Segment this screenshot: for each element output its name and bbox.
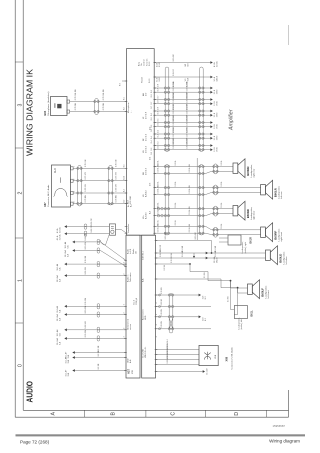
svg-text:0.35 GR-SB: 0.35 GR-SB: [171, 252, 173, 262]
svg-text:0.35 OR-SB: 0.35 OR-SB: [187, 138, 189, 148]
svg-text:CON_A: CON_A: [135, 297, 138, 305]
wire into A27 y=241.9: [73, 242, 127, 261]
svg-text:0.5 BL-SB: 0.5 BL-SB: [158, 206, 160, 215]
svg-text:Amplifier: Amplifier: [229, 109, 235, 131]
shield, microphone pair: [95, 99, 99, 115]
wire pair amp out 6: [154, 145, 212, 147]
shield racetracks, right field: [165, 67, 169, 152]
svg-text:B-2: B-2: [205, 318, 207, 321]
svg-text:8:3: 8:3: [120, 82, 122, 86]
svg-text:0.5 BL: 0.5 BL: [175, 181, 177, 186]
wire pair amp out 1: [154, 87, 212, 89]
svg-text:2: 2: [124, 259, 126, 260]
svg-text:D-7: D-7: [151, 102, 153, 105]
shield, AUX pairs 1: [78, 166, 82, 207]
svg-text:D-8: D-8: [151, 94, 153, 97]
svg-text:B-5: B-5: [124, 165, 126, 168]
wire into A27 y=338.4: [65, 337, 127, 339]
svg-text:1: 1: [74, 166, 76, 167]
svg-text:AUX: AUX: [54, 168, 57, 173]
svg-text:D-3: D-3: [158, 142, 160, 145]
svg-text:Handsfree: Handsfree: [128, 223, 130, 233]
svg-text:0.5 BL-SB: 0.5 BL-SB: [189, 185, 191, 194]
svg-text:8:1: 8:1: [124, 97, 126, 100]
svg-text:AM: AM: [142, 93, 145, 96]
twist X inside shield: [169, 318, 173, 329]
wire to B61L +: [231, 281, 235, 310]
svg-text:0.5 R: 0.5 R: [159, 62, 161, 67]
svg-text:31/4: 31/4: [68, 373, 70, 377]
AUX headphone symbol: [60, 177, 62, 182]
wire into A27 y=306.3: [65, 305, 127, 307]
svg-text:0.5 BL-SB: 0.5 BL-SB: [189, 223, 191, 232]
twist knots at amp edge, lower rows: [157, 207, 160, 210]
svg-text:2: 2: [17, 191, 23, 194]
svg-text:2: 2: [124, 262, 126, 263]
loudspeaker B60LF: [248, 280, 270, 299]
svg-text:A27: A27: [127, 368, 131, 374]
svg-text:B60LF: B60LF: [261, 288, 265, 297]
svg-text:0.35 GR: 0.35 GR: [85, 184, 87, 192]
shield, AUX pairs 2: [109, 166, 113, 206]
svg-text:B-2: B-2: [205, 296, 207, 299]
svg-text:B60LR: B60LR: [274, 188, 278, 197]
svg-text:Telematics: Telematics: [129, 273, 132, 282]
svg-text:D-4: D-4: [150, 156, 152, 160]
svg-text:0.35 GN: 0.35 GN: [85, 330, 87, 338]
svg-text:0.5 BL: 0.5 BL: [175, 220, 177, 225]
registration mark, top right: [288, 25, 290, 45]
svg-text:31/4: 31/4: [68, 360, 70, 364]
svg-text:31:1-A7: 31:1-A7: [206, 368, 209, 374]
svg-text:31/3-A: 31/3-A: [215, 61, 218, 67]
svg-text:D-8: D-8: [158, 84, 160, 87]
svg-text:D-5: D-5: [158, 123, 160, 126]
svg-text:D-6: D-6: [151, 113, 153, 116]
svg-text:54/2-B: 54/2-B: [216, 75, 218, 81]
svg-text:B-9: B-9: [124, 200, 126, 203]
svg-text:3: 3: [17, 103, 23, 106]
svg-text:D-4: D-4: [158, 134, 160, 137]
vertical bus right of racetracks: [196, 158, 198, 240]
svg-text:VBUS D+ D-: VBUS D+ D-: [145, 346, 147, 358]
svg-text:0.5 BL-SB: 0.5 BL-SB: [189, 206, 191, 215]
svg-text:0.35 OR: 0.35 OR: [160, 249, 162, 257]
svg-text:left front: left front: [267, 290, 270, 298]
svg-text:B-10: B-10: [124, 176, 126, 180]
module A27 ICM box 1: [126, 235, 140, 378]
svg-text:0.35 GR-SB: 0.35 GR-SB: [187, 115, 189, 125]
svg-text:0.35 VO: 0.35 VO: [85, 172, 87, 180]
svg-text:(treble), right: (treble), right: [244, 242, 247, 254]
svg-text:Shield: Shield: [142, 77, 144, 83]
svg-text:0.5 BL: 0.5 BL: [175, 202, 177, 207]
rows from A27 top right: [156, 240, 212, 242]
svg-text:0.35 GN: 0.35 GN: [85, 242, 87, 250]
lower rows from A27 right edge: [156, 294, 201, 296]
svg-text:A-6: A-6: [149, 210, 152, 214]
wire to B60LF -: [156, 279, 248, 293]
svg-text:0.35 GR: 0.35 GR: [173, 54, 175, 62]
wire pair to B60RR: [154, 166, 233, 168]
svg-text:HDD: HDD: [145, 315, 147, 320]
svg-text:0.35 BN: 0.35 BN: [161, 309, 163, 316]
svg-text:16/30: 16/30: [216, 136, 218, 141]
svg-text:D-5: D-5: [151, 129, 153, 132]
svg-text:In L R: In L R: [130, 248, 132, 254]
svg-text:0.35 GR: 0.35 GR: [195, 232, 197, 240]
wire to B61L -: [234, 288, 237, 315]
svg-text:Audio in: Audio in: [127, 275, 130, 282]
svg-text:Amp: Amp: [138, 61, 141, 66]
svg-text:0.5 BL-SB: 0.5 BL-SB: [158, 164, 160, 173]
svg-text:0.35 GN-SB: 0.35 GN-SB: [173, 104, 175, 114]
svg-text:B60RF: B60RF: [274, 230, 278, 239]
svg-text:31/3-A: 31/3-A: [58, 227, 61, 233]
svg-text:A-5 A-6: A-5 A-6: [145, 211, 148, 219]
svg-text:15956587: 15956587: [273, 424, 286, 428]
svg-text:WIRING DIAGRAM IK: WIRING DIAGRAM IK: [26, 68, 35, 156]
svg-text:B60RD: B60RD: [246, 209, 250, 218]
svg-text:Control: Control: [143, 59, 146, 66]
svg-text:D-3: D-3: [151, 152, 153, 155]
svg-text:AUDIO: AUDIO: [25, 381, 34, 403]
svg-text:D-3 D-4: D-3 D-4: [146, 145, 148, 153]
wire pair to B60RD: [154, 208, 233, 210]
amplifier pin label top left: [122, 80, 127, 82]
svg-text:0.5 BL-SB: 0.5 BL-SB: [158, 223, 160, 232]
svg-text:B63: B63: [43, 110, 47, 115]
svg-text:0.35 GN: 0.35 GN: [85, 306, 87, 314]
svg-text:0.5 BL-SB: 0.5 BL-SB: [189, 164, 191, 173]
svg-text:(treble), left: (treble), left: [240, 319, 243, 330]
svg-text:D-16: D-16: [149, 61, 151, 66]
bottom rows into A27: [73, 352, 127, 354]
svg-text:0.35 BL-SB: 0.35 BL-SB: [187, 81, 189, 91]
wire pair to B60RF: [154, 226, 260, 230]
svg-text:4: 4: [156, 314, 158, 315]
wire pair amp out 3: [154, 110, 212, 112]
svg-text:0.35 GN: 0.35 GN: [116, 159, 118, 167]
wire into A27 y=264.1: [65, 263, 127, 265]
svg-text:Accessories: Accessories: [142, 309, 145, 320]
svg-text:ICM_W_1: ICM_W_1: [143, 250, 145, 260]
svg-text:2: 2: [124, 274, 126, 275]
svg-text:B61R: B61R: [250, 237, 253, 244]
svg-text:Connector, AUX, Audio: Connector, AUX, Audio: [47, 184, 50, 207]
svg-text:16/30: 16/30: [216, 113, 218, 118]
svg-text:0.35 VO-SB: 0.35 VO-SB: [187, 127, 189, 137]
svg-text:B60LD: B60LD: [279, 254, 283, 263]
svg-text:L R GND: L R GND: [130, 195, 132, 204]
svg-text:0.35 GR-SB: 0.35 GR-SB: [173, 115, 175, 125]
svg-text:0.35 BL-SB: 0.35 BL-SB: [173, 81, 175, 91]
svg-text:ICM: ICM: [132, 370, 134, 374]
svg-text:Microphone: Microphone: [128, 102, 130, 113]
svg-text:right door: right door: [252, 210, 255, 220]
svg-text:D-6: D-6: [151, 117, 153, 120]
branch wires down to B61L: [230, 280, 232, 282]
svg-text:0.5 SB: 0.5 SB: [98, 350, 100, 356]
svg-text:C: C: [170, 412, 176, 416]
svg-text:D: D: [234, 412, 240, 416]
svg-text:D-5: D-5: [151, 125, 153, 128]
control button box (handsfree): [109, 224, 115, 235]
svg-text:0.35 BN: 0.35 BN: [116, 195, 118, 203]
svg-text:+ -: + -: [131, 110, 133, 113]
svg-text:D-6: D-6: [158, 111, 160, 114]
svg-text:0.5 GN: 0.5 GN: [215, 250, 217, 257]
tweeter B61R: [228, 235, 241, 245]
connector X88 USB: [199, 345, 218, 365]
svg-text:2: 2: [124, 336, 126, 337]
svg-text:0.35 BN: 0.35 BN: [161, 298, 163, 305]
svg-text:0.35 VO-SB: 0.35 VO-SB: [173, 127, 175, 137]
svg-text:0.35 GN-SB: 0.35 GN-SB: [187, 104, 189, 114]
svg-text:3: 3: [74, 191, 76, 192]
svg-text:D-4: D-4: [158, 130, 160, 133]
svg-text:D-1 D-2: D-1 D-2: [146, 133, 148, 141]
wires A27 to X88: [156, 349, 200, 351]
svg-text:0.35 OR: 0.35 OR: [91, 218, 93, 226]
svg-text:0.5 GN: 0.5 GN: [182, 250, 184, 257]
svg-text:D-5 D-6: D-5 D-6: [146, 167, 148, 175]
svg-text:0.35 GR: 0.35 GR: [165, 232, 167, 240]
svg-text:0.5 SB: 0.5 SB: [228, 296, 230, 302]
svg-text:0.35 VO: 0.35 VO: [173, 68, 175, 75]
svg-text:384:33: 384:33: [216, 258, 218, 264]
svg-text:31/3-A: 31/3-A: [58, 234, 61, 240]
svg-text:AUX: AUX: [127, 199, 130, 204]
svg-text:0.35 SB: 0.35 SB: [103, 103, 105, 111]
svg-text:0: 0: [17, 364, 23, 367]
svg-text:A-B: A-B: [129, 359, 132, 363]
svg-text:B: B: [110, 411, 116, 415]
svg-text:D-6: D-6: [158, 107, 160, 110]
svg-text:16/30: 16/30: [216, 101, 218, 106]
svg-text:X88: X88: [225, 356, 229, 361]
svg-text:Wiring diagram: Wiring diagram: [269, 439, 300, 444]
svg-text:0.35 GN-SB: 0.35 GN-SB: [103, 89, 105, 100]
svg-text:D-7: D-7: [158, 100, 160, 103]
svg-text:Connector, USB, Audio: Connector, USB, Audio: [231, 346, 234, 369]
shield, lower pairs: [169, 294, 173, 333]
loudspeaker B60RD: [233, 201, 255, 220]
rows above A27: [65, 226, 110, 228]
svg-text:0.35 GN: 0.35 GN: [85, 159, 87, 167]
svg-text:0.35 OR: 0.35 OR: [91, 225, 93, 233]
svg-text:4: 4: [156, 336, 158, 337]
wire pair to B60LR: [154, 187, 260, 189]
amplifier pin stubs, left edge: [125, 80, 128, 82]
svg-text:Infotainment: Infotainment: [127, 319, 130, 330]
svg-text:4: 4: [156, 303, 158, 304]
svg-text:X87: X87: [43, 202, 47, 207]
svg-text:0.5 R: 0.5 R: [159, 76, 161, 81]
svg-text:0.35 GN-SB: 0.35 GN-SB: [75, 89, 77, 100]
svg-text:16/30: 16/30: [216, 90, 218, 95]
module A27 ICM box 2: [142, 235, 156, 378]
svg-text:1: 1: [17, 279, 23, 282]
svg-text:2: 2: [124, 313, 126, 314]
loudspeaker B60LD: [266, 246, 288, 265]
svg-text:0.35 GR: 0.35 GR: [116, 184, 118, 192]
svg-text:0.35 BN: 0.35 BN: [161, 287, 163, 294]
svg-text:right rear: right rear: [252, 168, 255, 177]
svg-text:0.35 GN: 0.35 GN: [85, 267, 87, 275]
svg-text:D-7 D-8: D-7 D-8: [146, 111, 148, 119]
wire into A27 y=250.5: [73, 251, 127, 267]
svg-text:0.35 GN: 0.35 GN: [85, 321, 87, 329]
svg-text:0.35 BN: 0.35 BN: [85, 195, 87, 203]
svg-text:Page 72 (268): Page 72 (268): [20, 439, 50, 444]
tweeter B61L: [234, 306, 247, 319]
svg-text:0.5 SB: 0.5 SB: [164, 264, 166, 270]
svg-text:0.35 GN: 0.35 GN: [85, 255, 87, 263]
wire pair amp out 2: [154, 99, 212, 101]
wire pair B63 to amplifier: [70, 101, 127, 103]
svg-text:31S: 31S: [187, 77, 189, 81]
wire pair amp out 5: [154, 133, 212, 135]
stepped wires A27 to B60LF: [189, 264, 191, 272]
wires A27 to B60LD: [156, 252, 266, 254]
svg-text:left rear: left rear: [280, 191, 283, 199]
svg-text:D-3: D-3: [158, 146, 160, 149]
wire pair amp out 4: [154, 122, 212, 124]
svg-text:D-7: D-7: [151, 106, 153, 109]
wire amp out y=77.0: [154, 76, 212, 78]
loudspeaker B60LR: [261, 180, 283, 199]
svg-text:source: source: [130, 323, 132, 330]
svg-text:0.35 VO: 0.35 VO: [116, 172, 118, 180]
svg-text:D-5: D-5: [158, 119, 160, 122]
svg-text:16/30: 16/30: [216, 147, 218, 152]
bottom right arrow from A27: [156, 371, 205, 373]
grid margin strip, bottom (letters A-D): [15, 416, 288, 418]
svg-text:0.5 SB: 0.5 SB: [204, 272, 206, 278]
svg-text:B61L: B61L: [251, 310, 254, 317]
svg-text:Microphone, (handsfree): Microphone, (handsfree): [47, 91, 50, 115]
svg-text:31/4: 31/4: [68, 355, 70, 359]
connector X87 AUX: [52, 165, 71, 207]
svg-text:2: 2: [74, 179, 76, 180]
svg-text:USB: USB: [215, 354, 217, 359]
footer rule: [16, 434, 306, 436]
wire into A27 y=275.6: [65, 275, 127, 277]
svg-text:0.5 BL: 0.5 BL: [221, 160, 223, 165]
microphone B63: [51, 97, 68, 116]
amplifier box: [127, 49, 155, 236]
svg-text:D-4: D-4: [151, 136, 153, 139]
svg-text:left door: left door: [285, 256, 288, 264]
svg-text:0.35 OR-SB: 0.35 OR-SB: [173, 138, 175, 148]
svg-text:D-6: D-6: [150, 182, 152, 186]
svg-text:D-9: D-9: [146, 92, 148, 96]
svg-text:A-8 A-4: A-8 A-4: [145, 189, 148, 197]
loudspeaker B60RR: [233, 159, 255, 178]
svg-text:2: 2: [124, 328, 126, 329]
svg-text:0.5 SB: 0.5 SB: [98, 363, 100, 369]
svg-text:right front: right front: [280, 232, 283, 242]
svg-text:4: 4: [74, 202, 76, 203]
svg-text:D-8: D-8: [151, 90, 153, 93]
wire to B60LF +: [190, 272, 248, 288]
svg-text:0.35 BN-SB: 0.35 BN-SB: [173, 92, 175, 102]
svg-text:2: 2: [124, 304, 126, 305]
wires from button box: [116, 229, 122, 231]
svg-text:16/30: 16/30: [216, 124, 218, 129]
svg-text:0.35 A-34:1: 0.35 A-34:1: [166, 354, 169, 363]
svg-text:0.5 BL: 0.5 BL: [175, 160, 177, 165]
svg-text:0.35 BN-SB: 0.35 BN-SB: [187, 92, 189, 102]
svg-text:0.5 BL-SB: 0.5 BL-SB: [158, 185, 160, 194]
svg-text:Audio: Audio: [127, 248, 130, 254]
svg-text:0.5 BL: 0.5 BL: [221, 181, 223, 186]
svg-text:D-10: D-10: [149, 78, 151, 83]
svg-text:2: 2: [124, 265, 126, 266]
svg-text:4: 4: [156, 324, 158, 325]
svg-text:0.35 GN: 0.35 GN: [85, 298, 87, 306]
svg-text:D-7: D-7: [158, 96, 160, 99]
grid margin strip, left (numbers 0-3): [14, 0, 16, 417]
svg-text:D-8: D-8: [158, 88, 160, 91]
svg-text:CD: CD: [136, 251, 138, 254]
svg-text:B60RR: B60RR: [246, 166, 250, 175]
wire into A27 y=314.5: [65, 314, 127, 316]
svg-text:0.35 BN: 0.35 BN: [161, 321, 163, 328]
wire into A27 y=329.8: [65, 329, 127, 331]
svg-text:31S: 31S: [187, 63, 189, 67]
svg-text:B-4: B-4: [124, 189, 126, 192]
shield racetracks, speaker pairs: [165, 165, 169, 236]
svg-text:8:2: 8:2: [124, 107, 126, 110]
svg-text:D-3: D-3: [151, 148, 153, 151]
wire amp out y=62.5: [154, 62, 212, 64]
wires X87 to amplifier: [73, 167, 126, 169]
svg-text:0.5 BL: 0.5 BL: [221, 224, 223, 229]
svg-text:0.35 SB: 0.35 SB: [75, 103, 77, 111]
svg-text:0.5 SB: 0.5 SB: [98, 345, 100, 351]
svg-text:0.5 BL: 0.5 BL: [221, 202, 223, 207]
loudspeaker B60RF: [261, 223, 283, 242]
junction row y=264: [156, 263, 191, 265]
svg-text:D-4: D-4: [151, 140, 153, 143]
connector arc symbol lower-left of button: [101, 234, 110, 245]
svg-text:A: A: [50, 411, 56, 415]
